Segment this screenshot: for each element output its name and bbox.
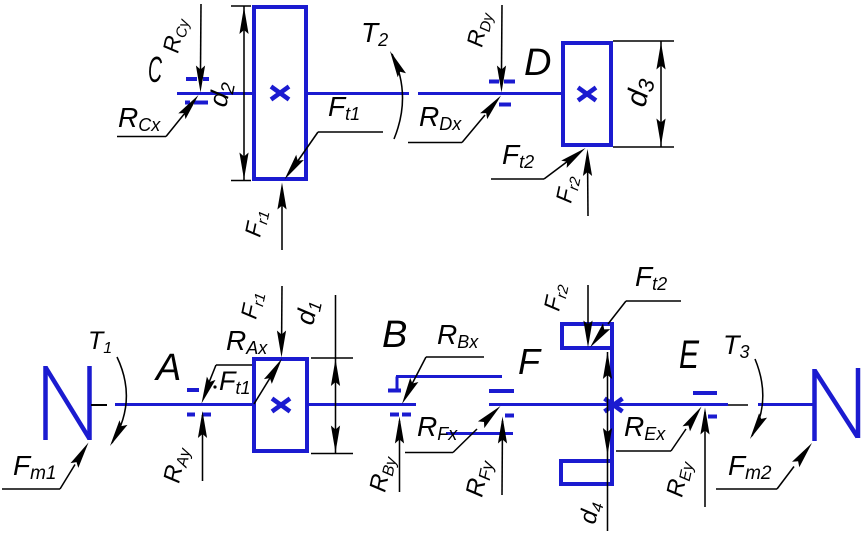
svg-text:Ft1: Ft1: [219, 366, 251, 398]
svg-text:Fr1: Fr1: [235, 289, 269, 322]
force arrow Fr1 (bottom): [281, 286, 284, 352]
shaft 1 axis, left segment: [115, 403, 416, 406]
reaction arrow RFx head: [478, 406, 501, 428]
gear d1 body: [254, 359, 307, 451]
svg-text:D: D: [524, 42, 551, 84]
reaction arrow RDx leader: [408, 142, 462, 144]
force arrow Fr1 (top): [281, 188, 283, 250]
reaction arrow RBx head: [402, 378, 418, 404]
force arrow Fm2 leader: [716, 488, 777, 490]
d2 dimension arrows: [239, 7, 248, 34]
label Ft1 (bottom) leader dot: [213, 385, 216, 388]
svg-text:d3: d3: [621, 74, 660, 110]
sleeve lower line: [446, 432, 513, 435]
svg-text:F: F: [518, 341, 542, 382]
bearing A upper dash: [187, 388, 199, 392]
reaction arrow RAy: [202, 415, 204, 481]
svg-text:RDy: RDy: [461, 8, 497, 50]
sleeve upper step: [396, 377, 399, 392]
bearing C lower dashes: [185, 101, 190, 105]
bearing F upper dash: [489, 389, 514, 393]
svg-text:Ft2: Ft2: [502, 139, 534, 172]
force arrow Ft2 (bottom) head: [590, 323, 610, 347]
svg-text:RCy: RCy: [157, 14, 193, 56]
torque arc T2: [392, 54, 403, 139]
reaction arrow RDx head: [480, 96, 501, 120]
coupling symbol left (N shape): [43, 366, 48, 440]
d2 dimension line: [243, 6, 245, 181]
torque arrow head T2: [390, 51, 406, 77]
bearing B upper bar: [388, 389, 401, 393]
shaft 3 axis, coupling segment: [758, 403, 814, 406]
svg-text:d1: d1: [290, 297, 326, 328]
bearing E lower dash: [708, 415, 717, 419]
force arrow Ft1 (bottom): [254, 378, 270, 404]
gear d4 upper rim: [562, 324, 612, 348]
d4 dimension arrows: [603, 352, 612, 379]
reaction arrow REx leader: [616, 450, 671, 452]
gear d3 shaft cross mark: [578, 88, 596, 101]
force arrow Fr2 (top): [587, 155, 590, 216]
bearing D upper dashes: [489, 80, 499, 84]
reaction arrow RAx leader: [216, 364, 277, 366]
d4 dimension line: [607, 352, 609, 531]
svg-text:Fm2: Fm2: [728, 450, 772, 484]
force arrow Ft1 (top) head: [285, 155, 304, 180]
shaft 2 axis (top), left segment: [177, 92, 409, 95]
shaft 1/3 axis, middle segment: [489, 403, 728, 406]
bearing E upper dash: [693, 391, 717, 395]
d1 dimension arrows: [331, 359, 340, 386]
svg-text:d4: d4: [574, 499, 607, 527]
gear d2 shaft cross mark: [271, 87, 289, 100]
svg-text:d2: d2: [203, 78, 241, 110]
bearing F lower dash: [505, 414, 514, 418]
reaction arrow RBx leader: [426, 356, 484, 358]
reaction arrow RCx leader: [117, 136, 166, 138]
d3 dimension arrows: [656, 43, 665, 70]
svg-text:Fr2: Fr2: [550, 172, 584, 205]
svg-text:Fr2: Fr2: [538, 280, 572, 313]
sleeve upper line: [396, 375, 502, 378]
svg-text:RCx: RCx: [118, 102, 161, 135]
svg-text:E: E: [679, 333, 700, 377]
reaction arrow RAx head: [202, 377, 216, 404]
d3 dimension line: [660, 41, 662, 147]
gear d4 shaft cross mark: [605, 399, 623, 412]
force arrow Ft2 (top) head: [561, 148, 585, 168]
svg-text:RAx: RAx: [226, 325, 268, 358]
torque arc T3: [752, 359, 763, 436]
bearing C upper dashes: [186, 77, 197, 81]
force arrow Ft2 (bottom) leader: [626, 300, 681, 302]
shaft 3 thin axis line: [728, 404, 748, 406]
svg-text:RBx: RBx: [437, 319, 479, 352]
torque arrow head T1: [110, 420, 128, 446]
reaction arrow RBy: [399, 421, 401, 492]
reaction arrow RCy: [200, 4, 203, 70]
svg-text:RFy: RFy: [460, 456, 497, 500]
reaction arrow RCx head: [178, 95, 198, 119]
torque arc T1: [112, 357, 126, 443]
svg-text:RBy: RBy: [364, 452, 400, 494]
torque arrow head T3: [750, 413, 767, 439]
reaction arrow REx head: [683, 407, 702, 432]
bearing A lower dashes: [187, 413, 195, 417]
svg-text:REx: REx: [624, 411, 666, 444]
d1 dimension extension ticks: [311, 357, 353, 359]
svg-text:B: B: [382, 314, 407, 356]
gear d3 body: [563, 43, 611, 145]
force arrow Fm1 head: [71, 443, 89, 468]
force arrow Ft2 (top) leader: [491, 178, 544, 180]
svg-text:REy: REy: [661, 457, 697, 499]
d1 dimension line: [335, 295, 337, 454]
svg-text:C: C: [148, 49, 163, 90]
force arrow Fr2 (bottom): [587, 285, 589, 341]
svg-text:Fm1: Fm1: [13, 450, 57, 484]
svg-text:RFx: RFx: [417, 411, 458, 444]
gear d1 shaft cross mark: [272, 399, 290, 412]
gear d4 lower rim: [561, 461, 612, 484]
reaction arrow RFx leader: [405, 452, 453, 454]
coupling left axis tick: [91, 404, 107, 406]
reaction arrow REy: [704, 412, 706, 507]
svg-text:A: A: [154, 347, 181, 389]
svg-text:T3: T3: [723, 330, 750, 362]
bearing B lower dashes: [390, 413, 399, 417]
bearing D lower dash: [499, 103, 511, 107]
reaction arrow RFy: [501, 421, 504, 495]
force arrow Ft1 (top) leader: [318, 131, 383, 133]
reaction arrow RDy: [501, 5, 504, 70]
svg-text:Ft1: Ft1: [328, 91, 360, 124]
svg-text:RAy: RAy: [158, 444, 194, 486]
force arrow Fm1 leader: [2, 488, 60, 490]
svg-text:Fr1: Fr1: [239, 207, 273, 240]
d2 dimension extension ticks: [231, 5, 251, 7]
svg-text:T1: T1: [88, 327, 112, 357]
gear d2 body: [254, 7, 306, 179]
svg-text:T2: T2: [361, 17, 388, 50]
coupling symbol right (N shape): [812, 369, 817, 441]
d3 dimension extension ticks: [613, 40, 674, 42]
force arrow Fm2 head: [792, 443, 812, 467]
svg-text:RDx: RDx: [419, 101, 462, 134]
gear d4 web line: [610, 322, 614, 486]
shaft 2 axis (top), right segment: [418, 92, 562, 95]
svg-text:Ft2: Ft2: [635, 261, 667, 294]
